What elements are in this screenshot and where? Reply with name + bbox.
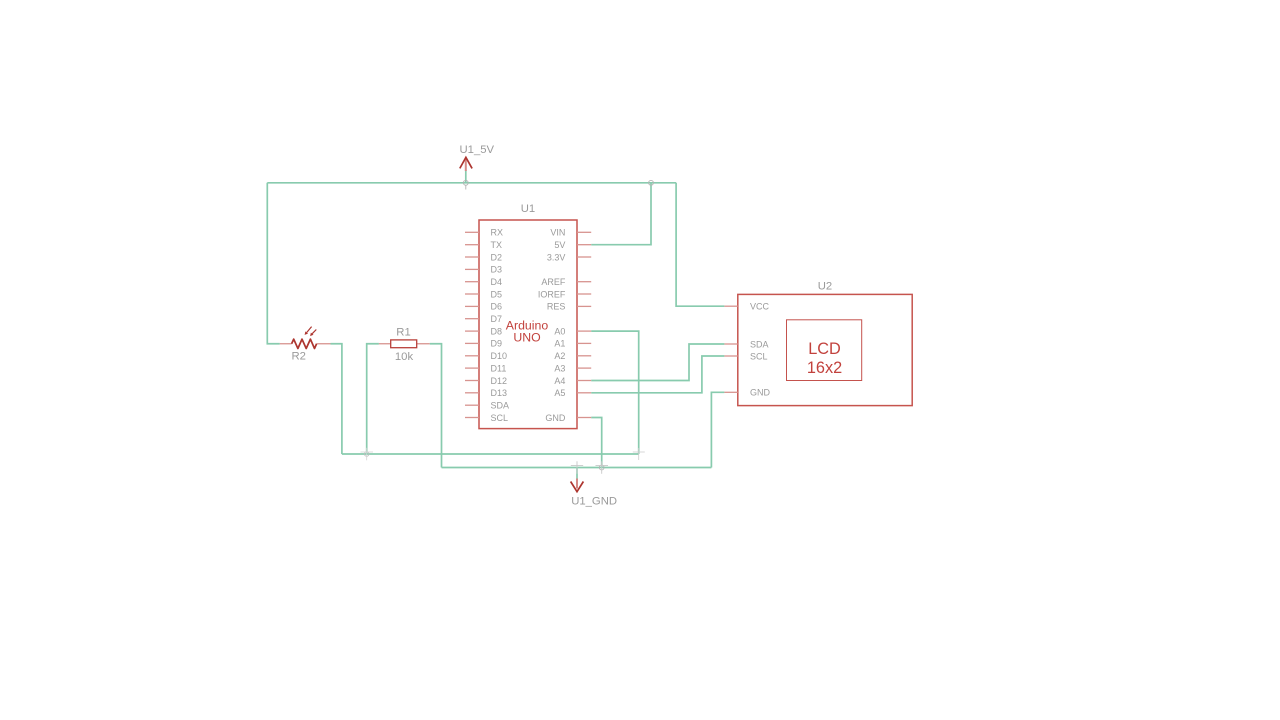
svg-text:LCD: LCD	[808, 340, 841, 358]
svg-text:R2: R2	[292, 351, 306, 363]
IC U2 LCD box	[738, 294, 912, 405]
svg-text:A1: A1	[554, 339, 565, 349]
wire rail to LCD VCC	[676, 183, 724, 306]
svg-text:UNO: UNO	[513, 330, 540, 344]
svg-text:D9: D9	[491, 339, 503, 349]
node cross at A0 net corner	[633, 448, 645, 460]
svg-text:SDA: SDA	[491, 401, 510, 411]
wire GND net bottom	[442, 467, 712, 469]
svg-text:D7: D7	[491, 314, 503, 324]
svg-text:TX: TX	[491, 240, 503, 250]
svg-text:D6: D6	[491, 302, 503, 312]
resistor R1	[379, 327, 430, 364]
wire R1 left to A0 net	[367, 344, 379, 454]
svg-text:SCL: SCL	[750, 351, 768, 361]
wire R2 right to A0 net	[331, 344, 342, 454]
svg-text:D5: D5	[491, 289, 503, 299]
svg-text:A3: A3	[554, 363, 565, 373]
U1 left pin stubs	[465, 232, 479, 417]
wire top 5V rail	[267, 182, 676, 184]
svg-text:U1_5V: U1_5V	[460, 144, 495, 156]
svg-text:U1_GND: U1_GND	[571, 496, 617, 508]
U1 left pin labels	[491, 228, 510, 423]
svg-text:IOREF: IOREF	[538, 289, 566, 299]
wire left vertical to R2	[267, 183, 280, 344]
svg-text:RX: RX	[491, 228, 504, 238]
svg-text:RES: RES	[547, 302, 566, 312]
U2 pin stubs	[724, 306, 737, 392]
junction node U1 GND / GND net	[596, 461, 609, 474]
photoresistor R2	[280, 327, 331, 363]
power flag U1_5V	[460, 144, 495, 183]
wire 5V pin to rail	[591, 183, 651, 245]
wire A5 to SCL	[591, 356, 724, 393]
svg-text:D13: D13	[491, 388, 508, 398]
wire A0 pin down	[591, 331, 639, 454]
svg-text:GND: GND	[750, 388, 771, 398]
svg-text:D3: D3	[491, 265, 503, 275]
wire U1 GND pin down	[591, 418, 602, 468]
svg-text:16x2: 16x2	[807, 359, 842, 377]
svg-text:5V: 5V	[554, 240, 565, 250]
svg-text:R1: R1	[396, 327, 410, 339]
svg-text:A0: A0	[554, 326, 565, 336]
svg-text:U2: U2	[818, 281, 832, 293]
svg-text:D12: D12	[491, 376, 508, 386]
svg-text:A4: A4	[554, 376, 565, 386]
junction node R1 left / A0 net	[361, 448, 374, 461]
svg-text:3.3V: 3.3V	[547, 252, 566, 262]
svg-text:A2: A2	[554, 351, 565, 361]
svg-text:VCC: VCC	[750, 302, 770, 312]
LCD 16x2 inner box	[787, 320, 862, 381]
junction node 5V pin / rail	[649, 180, 654, 185]
IC U1 Arduino UNO box	[479, 220, 577, 429]
junction node at 5V flag	[463, 180, 468, 189]
node cross at GND flag	[571, 461, 583, 474]
svg-text:10k: 10k	[395, 351, 414, 363]
wire A4 to SDA	[591, 344, 724, 381]
svg-text:GND: GND	[545, 413, 566, 423]
wire LCD GND down	[711, 392, 724, 467]
wire R1 right to GND net	[430, 344, 442, 468]
svg-text:D10: D10	[491, 351, 508, 361]
svg-text:A5: A5	[554, 388, 565, 398]
svg-text:SCL: SCL	[491, 413, 509, 423]
ground flag U1_GND	[571, 468, 617, 508]
svg-text:AREF: AREF	[541, 277, 566, 287]
svg-text:VIN: VIN	[550, 228, 565, 238]
svg-text:SDA: SDA	[750, 339, 769, 349]
svg-text:U1: U1	[521, 203, 535, 215]
U1 right pin labels	[538, 228, 566, 423]
svg-text:D11: D11	[491, 363, 507, 373]
svg-text:D4: D4	[491, 277, 503, 287]
wire A0 net bottom	[342, 453, 639, 455]
svg-text:D2: D2	[491, 252, 503, 262]
U1 right pin stubs	[577, 232, 591, 417]
svg-text:D8: D8	[491, 326, 503, 336]
U2 pin labels	[750, 302, 771, 398]
